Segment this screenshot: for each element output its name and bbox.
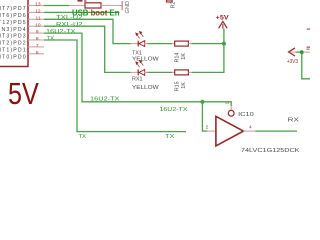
svg-text:TX: TX — [47, 36, 55, 42]
svg-text:1: 1 — [224, 102, 230, 105]
svg-text:TX: TX — [79, 134, 87, 140]
svg-text:TX: TX — [165, 134, 175, 140]
wire: RX net — [255, 130, 297, 132]
svg-text:1K: 1K — [181, 82, 187, 89]
wire: buffer pin 1 stub — [230, 106, 232, 110]
power +3V3 symbol (rotated, points left) — [287, 48, 298, 65]
wire: TXL-U2 net — [44, 19, 131, 43]
svg-text:NT6)PD6: NT6)PD6 — [0, 13, 27, 19]
svg-text:IN3)PD4: IN3)PD4 — [0, 27, 27, 33]
svg-text:GND: GND — [125, 1, 131, 13]
junction dot (16U2-TX at buffer) — [200, 100, 204, 104]
pin 12 (PD6) — [0, 9, 44, 20]
op-amp style buffer IC10 74LVC1G125DCK — [216, 110, 244, 145]
pin 9 (PD3) — [0, 29, 44, 40]
wire: junction to buffer pin 2 — [202, 102, 207, 131]
svg-text:2: 2 — [206, 125, 209, 131]
wire: pin12 net (USB boot En) — [44, 11, 120, 13]
svg-text:RX: RX — [288, 118, 300, 124]
svg-text:7: 7 — [36, 43, 39, 49]
svg-text:R2: R2 — [171, 1, 177, 8]
net label USB boot En — [72, 8, 120, 17]
svg-text:RXL-U2: RXL-U2 — [56, 22, 83, 28]
svg-text:13: 13 — [35, 2, 41, 8]
pin 7 (PD1) — [0, 43, 44, 54]
svg-text:TXL-U2: TXL-U2 — [56, 15, 83, 21]
svg-text:R14: R14 — [174, 53, 180, 63]
wire: resistor left lead — [69, 5, 85, 7]
resistor R15 1K — [172, 70, 192, 75]
pin 8 (PD2) — [0, 36, 44, 47]
wire: RXL-U2 net — [44, 26, 131, 72]
resistor (USB boot En pull-up, value cut off) — [85, 3, 101, 8]
svg-text:RX1: RX1 — [132, 76, 143, 82]
wire: pin13 net to resistor — [44, 5, 69, 7]
tiny cut-off text at right edge — [307, 29, 311, 50]
svg-text:NT1)PD1: NT1)PD1 — [0, 48, 27, 54]
svg-text:5V: 5V — [8, 77, 39, 111]
wire: buffer pin 2 stub — [207, 130, 216, 132]
power +5V symbol — [216, 14, 230, 28]
junction dot (+5V rail) — [222, 42, 226, 46]
wire: +5V to junction — [223, 29, 225, 44]
svg-text:4: 4 — [249, 125, 252, 131]
svg-text:74LVC1G125DCK: 74LVC1G125DCK — [241, 148, 300, 154]
IC U2 (microcontroller, partial view) — [0, 0, 28, 67]
LED TX1 YELLOW — [131, 31, 148, 46]
svg-text:T12)PD5: T12)PD5 — [0, 20, 27, 26]
resistor value text (cut off at top) — [78, 0, 87, 2]
pin 13 (PD7) — [0, 2, 44, 13]
pin 10 (PD4) — [0, 22, 44, 33]
junction dot (+3V3) — [300, 50, 304, 54]
svg-text:IC10: IC10 — [238, 112, 254, 118]
resistor R2x (cut off at top edge) — [167, 0, 173, 2]
svg-text:R15: R15 — [174, 81, 180, 91]
wire: R14 to +5V rail — [192, 43, 224, 45]
wire: TX net — [44, 40, 186, 132]
wire: LED RX1 to R15 — [148, 71, 173, 73]
wire: +3V3 net segment — [296, 51, 300, 53]
pin 6 (PD0) — [0, 50, 44, 61]
svg-text:11: 11 — [36, 15, 41, 21]
wire: +3V3 down and out right — [302, 52, 310, 79]
ground GND (rotated symbol) — [122, 1, 131, 14]
svg-text:NT7)PD7: NT7)PD7 — [0, 6, 27, 12]
svg-text:16U2-TX: 16U2-TX — [160, 107, 188, 113]
svg-text:YELLOW: YELLOW — [132, 85, 160, 91]
svg-text:9: 9 — [36, 29, 39, 35]
svg-text:+5V: +5V — [216, 14, 230, 21]
svg-text:NT3)PD3: NT3)PD3 — [0, 34, 27, 40]
wire: +3V3 stub to right edge — [303, 51, 310, 53]
svg-text:+3V3: +3V3 — [287, 59, 298, 65]
wire: 16U2-TX net — [44, 33, 202, 102]
svg-text:10: 10 — [35, 22, 41, 28]
wire: resistor right lead to GND — [101, 5, 122, 7]
svg-text:1K: 1K — [181, 53, 187, 60]
svg-text:12: 12 — [35, 9, 41, 15]
svg-text:6: 6 — [36, 50, 39, 56]
pin 11 (PD5) — [0, 15, 44, 26]
wire: buffer pin 4 stub — [243, 130, 255, 132]
svg-text:NT2)PD2: NT2)PD2 — [0, 41, 27, 47]
resistor R14 1K — [172, 41, 192, 46]
wire: junction to buffer pin 1 — [202, 102, 231, 106]
svg-text:8: 8 — [36, 36, 39, 42]
svg-text:16U2-TX: 16U2-TX — [90, 97, 120, 103]
svg-text:NT0)PD0: NT0)PD0 — [0, 54, 27, 60]
wire: R15 to +5V rail — [192, 44, 224, 73]
wire: LED TX1 to R14 — [148, 43, 173, 45]
svg-text:16U2-TX: 16U2-TX — [46, 29, 76, 35]
LED RX1 YELLOW — [131, 60, 148, 75]
